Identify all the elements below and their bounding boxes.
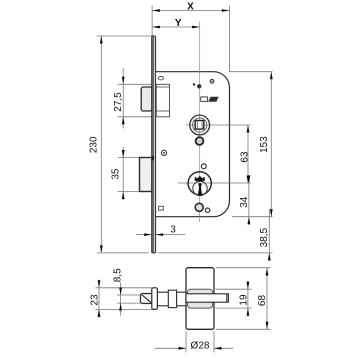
svg-text:23: 23 [90, 294, 101, 306]
svg-text:230: 230 [88, 136, 99, 153]
svg-text:35: 35 [110, 168, 121, 180]
svg-text:19: 19 [239, 294, 250, 306]
svg-text:Y: Y [175, 18, 182, 29]
svg-text:153: 153 [259, 136, 270, 153]
svg-text:Ø28: Ø28 [191, 340, 210, 351]
svg-text:27,5: 27,5 [113, 92, 124, 112]
svg-text:68: 68 [257, 295, 268, 307]
svg-text:34: 34 [239, 196, 250, 208]
svg-text:8,5: 8,5 [113, 268, 124, 282]
svg-text:3: 3 [170, 224, 176, 235]
svg-text:38,5: 38,5 [259, 228, 270, 248]
svg-text:63: 63 [239, 151, 250, 163]
svg-text:X: X [187, 2, 194, 13]
